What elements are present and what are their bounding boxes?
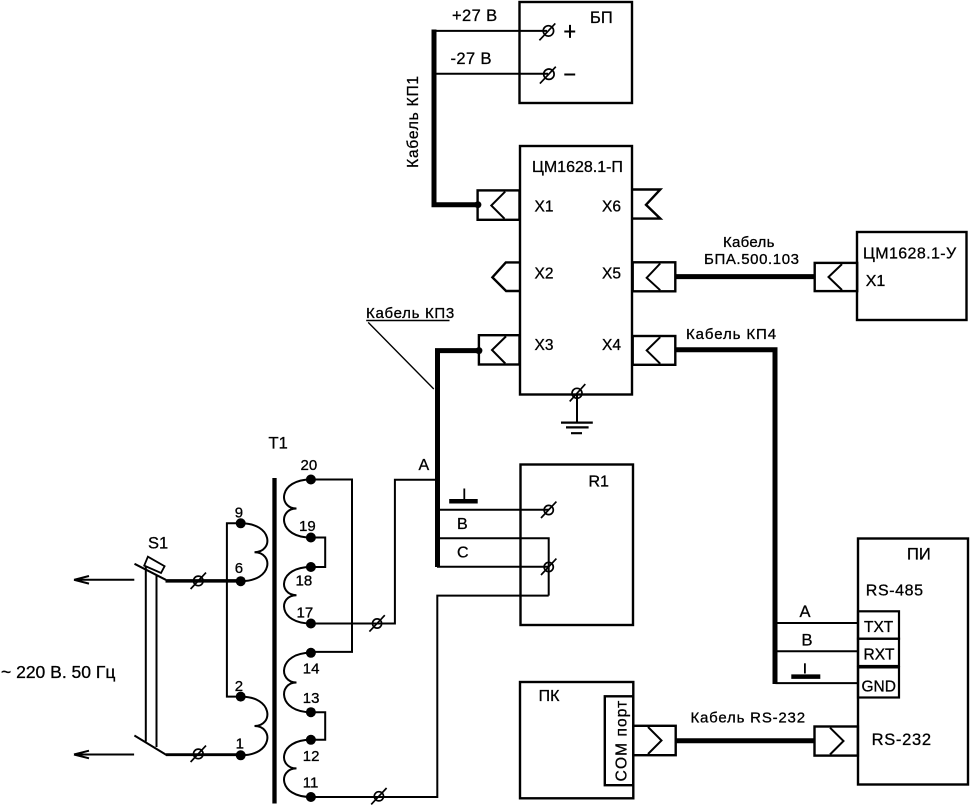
svg-text:20: 20 xyxy=(301,457,318,474)
svg-text:Кабель КП1: Кабель КП1 xyxy=(405,75,422,168)
svg-text:ПК: ПК xyxy=(539,688,561,705)
svg-text:Кабель: Кабель xyxy=(723,234,775,251)
svg-text:ПИ: ПИ xyxy=(907,546,931,564)
svg-text:13: 13 xyxy=(303,690,320,707)
svg-text:17: 17 xyxy=(297,605,314,622)
svg-text:B: B xyxy=(457,516,468,533)
svg-text:X4: X4 xyxy=(602,337,621,354)
svg-text:2: 2 xyxy=(235,678,243,695)
svg-text:Кабель КП3: Кабель КП3 xyxy=(366,305,455,322)
svg-text:X6: X6 xyxy=(602,199,621,216)
svg-text:~ 220 В. 50 Гц: ~ 220 В. 50 Гц xyxy=(1,662,115,682)
svg-text:18: 18 xyxy=(296,573,313,590)
svg-text:9: 9 xyxy=(235,505,243,522)
svg-text:14: 14 xyxy=(303,660,320,677)
svg-text:C: C xyxy=(457,545,469,562)
svg-text:X1: X1 xyxy=(535,199,554,216)
svg-text:S1: S1 xyxy=(148,535,168,553)
svg-text:6: 6 xyxy=(235,560,243,577)
svg-text:Кабель КП4: Кабель КП4 xyxy=(686,326,777,343)
svg-text:A: A xyxy=(800,603,811,621)
svg-text:+27 В: +27 В xyxy=(452,7,498,25)
svg-text:A: A xyxy=(419,457,430,474)
svg-text:ЦМ1628.1-П: ЦМ1628.1-П xyxy=(532,159,623,176)
svg-text:RS-232: RS-232 xyxy=(872,731,932,749)
svg-text:19: 19 xyxy=(299,518,316,535)
svg-text:R1: R1 xyxy=(589,474,610,491)
svg-text:-27 В: -27 В xyxy=(451,50,492,68)
svg-text:TXT: TXT xyxy=(864,619,894,636)
svg-text:БП: БП xyxy=(590,9,613,27)
svg-text:X5: X5 xyxy=(602,266,621,283)
svg-text:БПА.500.103: БПА.500.103 xyxy=(704,251,800,268)
svg-text:12: 12 xyxy=(303,748,320,765)
svg-text:1: 1 xyxy=(236,736,244,753)
svg-text:X3: X3 xyxy=(535,337,554,354)
svg-text:RS-485: RS-485 xyxy=(866,583,924,600)
svg-text:X2: X2 xyxy=(535,266,554,283)
svg-text:B: B xyxy=(802,632,813,650)
svg-text:COM порт: COM порт xyxy=(614,700,631,782)
svg-text:11: 11 xyxy=(303,775,319,792)
svg-text:RXT: RXT xyxy=(864,647,896,664)
svg-text:X1: X1 xyxy=(866,273,886,290)
svg-text:T1: T1 xyxy=(269,435,288,453)
svg-text:Кабель RS-232: Кабель RS-232 xyxy=(691,710,806,727)
svg-text:GND: GND xyxy=(862,679,896,696)
svg-text:ЦМ1628.1-У: ЦМ1628.1-У xyxy=(863,246,957,263)
